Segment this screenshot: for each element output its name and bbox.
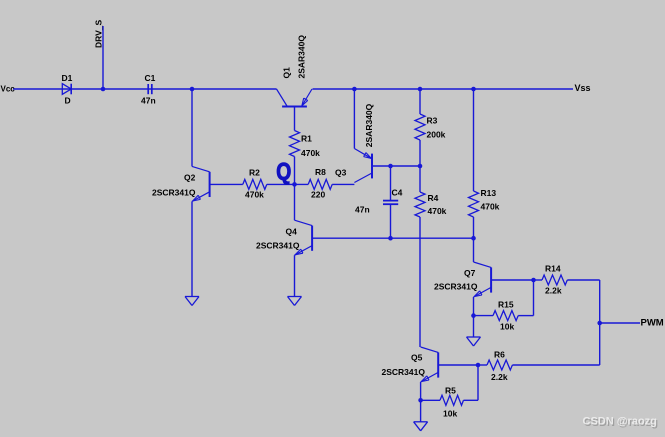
svg-text:DRV_S: DRV_S <box>94 19 104 48</box>
svg-text:200k: 200k <box>427 130 446 140</box>
svg-text:2.2k: 2.2k <box>491 372 508 382</box>
svg-text:Vss: Vss <box>575 83 591 93</box>
svg-text:Q7: Q7 <box>464 268 476 278</box>
svg-text:Q: Q <box>276 158 291 185</box>
svg-text:R4: R4 <box>428 193 439 203</box>
svg-text:D1: D1 <box>62 73 73 83</box>
svg-text:C1: C1 <box>145 73 156 83</box>
svg-text:Q2: Q2 <box>184 173 196 183</box>
svg-text:470k: 470k <box>481 202 500 212</box>
svg-text:PWM: PWM <box>641 318 664 329</box>
svg-text:470k: 470k <box>428 206 447 216</box>
svg-text:2SAR340Q: 2SAR340Q <box>297 35 307 79</box>
svg-text:10k: 10k <box>443 409 457 419</box>
svg-text:470k: 470k <box>245 190 264 200</box>
svg-text:Q5: Q5 <box>411 353 423 363</box>
svg-text:CSDN @raozg: CSDN @raozg <box>583 416 657 428</box>
svg-text:D: D <box>65 96 71 106</box>
svg-text:220: 220 <box>311 190 325 200</box>
svg-text:R8: R8 <box>315 167 326 177</box>
svg-text:2SCR341Q: 2SCR341Q <box>256 241 300 251</box>
svg-text:2.2k: 2.2k <box>545 286 562 296</box>
svg-text:2SCR341Q: 2SCR341Q <box>382 367 426 377</box>
svg-text:Vcc: Vcc <box>1 85 16 94</box>
svg-text:R3: R3 <box>427 116 438 126</box>
svg-text:47n: 47n <box>355 205 370 215</box>
svg-text:Q4: Q4 <box>286 227 298 237</box>
svg-text:2SAR340Q: 2SAR340Q <box>364 103 374 147</box>
svg-text:R13: R13 <box>481 188 497 198</box>
svg-text:470k: 470k <box>301 148 320 158</box>
svg-text:2SCR341Q: 2SCR341Q <box>434 282 478 292</box>
svg-text:R1: R1 <box>301 134 312 144</box>
svg-text:47n: 47n <box>141 96 156 106</box>
svg-text:Q1: Q1 <box>282 67 292 79</box>
svg-text:C4: C4 <box>392 188 403 198</box>
svg-text:10k: 10k <box>500 322 514 332</box>
svg-text:R5: R5 <box>445 386 456 396</box>
svg-text:2SCR341Q: 2SCR341Q <box>152 188 196 198</box>
svg-text:R2: R2 <box>249 168 260 178</box>
svg-text:R14: R14 <box>545 263 561 273</box>
svg-text:R6: R6 <box>494 350 505 360</box>
svg-text:Q3: Q3 <box>335 168 347 178</box>
svg-text:R15: R15 <box>498 300 514 310</box>
